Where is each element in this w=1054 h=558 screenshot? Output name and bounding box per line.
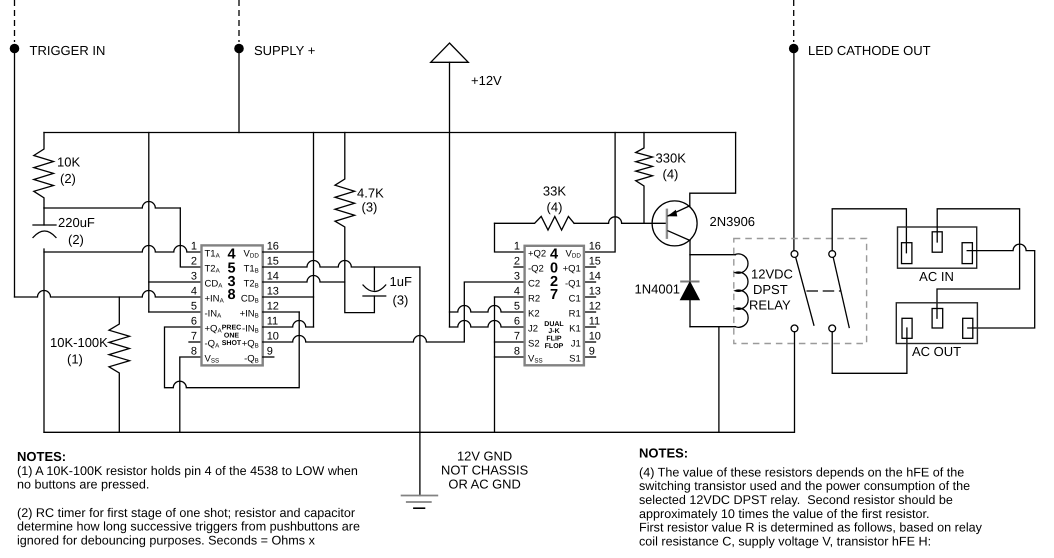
IC U2 4027 — [525, 246, 584, 365]
svg-text:1uF: 1uF — [390, 274, 412, 289]
svg-text:8: 8 — [191, 346, 197, 358]
relay K1 dashed box — [734, 239, 867, 344]
svg-text:3: 3 — [514, 271, 520, 283]
terminal SUPPLY + — [234, 44, 244, 54]
resistor R 4.7K — [335, 133, 374, 313]
wire R2 S2 VSS ground riser — [494, 297, 496, 432]
svg-text:AC OUT: AC OUT — [912, 344, 961, 359]
IC U1 4538 — [202, 245, 263, 365]
relay mechanical link dashed — [807, 290, 842, 292]
svg-text:2: 2 — [514, 256, 520, 268]
terminal TRIGGER IN dashed lead — [14, 0, 16, 42]
svg-text:(4) The value of these resisto: (4) The value of these resistors depends… — [639, 465, 964, 479]
svg-text:4.7K: 4.7K — [357, 186, 384, 201]
wire switch2 top to AC IN left prong — [832, 209, 906, 253]
svg-text:J-K: J-K — [548, 328, 559, 335]
wire pin16 VDD 4027 — [584, 133, 615, 253]
svg-text:11: 11 — [267, 316, 278, 328]
capacitor C 220uF — [43, 208, 45, 225]
wire pin8 VSS line 4027 — [495, 356, 525, 358]
wire AC IN right prong to AC OUT right prong — [967, 244, 1034, 328]
resistor R 330K — [636, 133, 653, 224]
svg-text:(4): (4) — [663, 167, 679, 182]
pin7 -QA stub — [189, 341, 202, 343]
svg-text:4: 4 — [191, 286, 197, 298]
relay switch 2 contacts — [829, 251, 836, 258]
terminal TRIGGER IN — [10, 44, 20, 54]
svg-text:14: 14 — [267, 271, 279, 283]
svg-text:11: 11 — [589, 316, 600, 328]
svg-text:(1): (1) — [67, 352, 83, 367]
wire pin3 CDA line — [149, 281, 202, 283]
svg-text:(3): (3) — [393, 293, 409, 308]
svg-text:6: 6 — [514, 316, 520, 328]
svg-text:2: 2 — [191, 256, 197, 268]
AC OUT left prong — [902, 318, 912, 338]
wire switch2 bottom to AC OUT left prong — [832, 328, 907, 373]
svg-text:3: 3 — [191, 271, 197, 283]
pin2 -Q2 stub — [514, 266, 525, 268]
svg-text:no buttons are pressed.: no buttons are pressed. — [17, 478, 149, 492]
svg-text:12V GND: 12V GND — [457, 448, 512, 463]
capacitor C 1uF — [373, 267, 375, 290]
svg-text:16: 16 — [589, 241, 601, 253]
svg-text:ignored for debouncing purpose: ignored for debouncing purposes. Seconds… — [17, 533, 316, 547]
svg-text:12: 12 — [267, 301, 279, 313]
svg-text:+12V: +12V — [471, 73, 502, 88]
wire TRIGGER IN down — [14, 53, 16, 297]
svg-text:4: 4 — [514, 286, 520, 298]
AC OUT middle prong — [932, 309, 943, 329]
svg-text:1: 1 — [191, 241, 197, 253]
svg-text:220uF: 220uF — [58, 215, 95, 230]
svg-text:5: 5 — [514, 301, 520, 313]
svg-text:SUPPLY +: SUPPLY + — [254, 43, 315, 58]
AC IN middle prong — [932, 232, 942, 252]
wire pin5 -INA line — [149, 311, 202, 313]
wire VDD riser 4538 — [313, 133, 315, 328]
svg-text:TRIGGER IN: TRIGGER IN — [30, 43, 106, 58]
wire T1B down to ground bus and chassis point — [419, 267, 421, 496]
svg-text:S1: S1 — [569, 354, 581, 365]
wire 33K to base — [574, 217, 667, 224]
wire AC IN middle prong loop to AC OUT middle prong — [937, 209, 1020, 318]
svg-text:2N3906: 2N3906 — [710, 214, 756, 229]
svg-text:10K: 10K — [57, 155, 80, 170]
connector AC IN box — [898, 227, 977, 268]
svg-text:(2): (2) — [68, 232, 84, 247]
svg-text:SHOT: SHOT — [222, 340, 242, 347]
4027 right stubs — [584, 266, 596, 268]
svg-text:R1: R1 — [569, 309, 581, 320]
svg-text:K2: K2 — [528, 309, 540, 320]
relay switch 1 contacts — [791, 251, 798, 258]
svg-text:DUAL: DUAL — [544, 321, 564, 328]
relay switch 1 armature — [796, 258, 814, 325]
svg-text:12VDC: 12VDC — [751, 267, 793, 282]
svg-text:10: 10 — [267, 331, 279, 343]
svg-text:NOTES:: NOTES: — [639, 446, 688, 461]
svg-text:9: 9 — [267, 346, 273, 358]
svg-text:approximately 10 times the val: approximately 10 times the value of the … — [639, 507, 930, 521]
svg-text:15: 15 — [589, 256, 601, 268]
svg-text:K1: K1 — [569, 324, 581, 335]
svg-text:RELAY: RELAY — [749, 298, 791, 313]
svg-text:12: 12 — [589, 301, 601, 313]
svg-text:10: 10 — [589, 331, 601, 343]
emitter with arrow — [668, 206, 690, 216]
svg-text:8: 8 — [227, 287, 235, 303]
svg-text:OR AC GND: OR AC GND — [448, 477, 520, 492]
AC IN left prong — [902, 243, 912, 264]
svg-text:(1) A 10K-100K resistor holds: (1) A 10K-100K resistor holds pin 4 of t… — [17, 464, 358, 478]
svg-text:AC IN: AC IN — [919, 269, 954, 284]
svg-text:C1: C1 — [569, 294, 581, 305]
relay switch 2 armature — [833, 258, 849, 328]
svg-text:7: 7 — [514, 331, 520, 343]
diode D1 1N4001 — [689, 255, 691, 282]
svg-text:330K: 330K — [656, 151, 687, 166]
svg-text:First resistor value R is dete: First resistor value R is determined as … — [639, 521, 983, 535]
svg-text:determine how long successive: determine how long successive triggers f… — [17, 520, 360, 534]
svg-text:ONE: ONE — [224, 332, 240, 339]
wire pin8 VSS to ground bus — [180, 357, 202, 432]
svg-text:7: 7 — [191, 331, 197, 343]
svg-text:J2: J2 — [528, 324, 538, 335]
wire J2 line to +12V — [450, 321, 525, 328]
power symbol +12V — [431, 43, 469, 62]
pin9 -QB stub — [263, 356, 274, 358]
wire pin7 S2 line — [495, 341, 525, 343]
AC IN right prong — [962, 243, 972, 264]
svg-text:selected 12VDC DPST relay. Se: selected 12VDC DPST relay. Second resist… — [639, 493, 953, 507]
svg-text:switching transistor used and: switching transistor used and the power … — [639, 479, 970, 493]
wire switch1 bottom to ground bus — [794, 332, 796, 433]
wire RC node A horizontal — [44, 202, 180, 209]
terminal SUPPLY + dashed lead — [238, 0, 240, 42]
ground symbol — [401, 495, 439, 497]
svg-text:DPST: DPST — [753, 282, 788, 297]
svg-text:13: 13 — [267, 286, 279, 298]
wire cap bottom down to ground bus — [43, 249, 45, 432]
svg-text:LED CATHODE OUT: LED CATHODE OUT — [808, 43, 931, 58]
svg-text:16: 16 — [267, 241, 279, 253]
svg-text:R2: R2 — [528, 294, 540, 305]
svg-text:NOTES:: NOTES: — [17, 449, 66, 464]
wire pin1 T1A line — [44, 246, 202, 252]
svg-text:1: 1 — [514, 241, 520, 253]
svg-text:(2) RC timer for first stage o: (2) RC timer for first stage of one shot… — [17, 506, 355, 520]
svg-text:9: 9 — [589, 346, 595, 358]
AC OUT right prong — [963, 318, 973, 338]
svg-text:FLOP: FLOP — [545, 343, 564, 350]
wire collector to relay coil top — [690, 254, 735, 256]
collector — [668, 231, 690, 241]
svg-text:PREC: PREC — [222, 325, 241, 332]
resistor R 10K — [34, 133, 54, 209]
wire top supply bus — [44, 132, 736, 134]
svg-text:(2): (2) — [60, 171, 76, 186]
label 12V GND — [441, 448, 528, 491]
svg-text:+Q1: +Q1 — [563, 264, 581, 275]
svg-text:5: 5 — [191, 301, 197, 313]
wire SUPPLY+ down to bus — [238, 53, 240, 133]
svg-text:13: 13 — [589, 286, 601, 298]
svg-text:J1: J1 — [571, 339, 581, 350]
svg-text:coil resistance C, supply volt: coil resistance C, supply voltage V, tra… — [639, 534, 931, 548]
wire pin15 T1B line — [263, 261, 420, 268]
svg-text:FLIP: FLIP — [546, 336, 561, 343]
svg-text:(4): (4) — [547, 200, 563, 215]
wire diode anode to relay coil bottom — [690, 326, 735, 328]
wire K2 line to +12V — [450, 306, 525, 313]
wire pin14 T2B line — [263, 276, 345, 283]
svg-text:1N4001: 1N4001 — [635, 282, 681, 297]
resistor R 33K — [495, 216, 575, 230]
wire LED cathode down to relay contact — [793, 53, 795, 251]
svg-text:+Q2: +Q2 — [528, 249, 546, 260]
wire pin6 +QA line — [165, 312, 300, 388]
wire trigger line to pin4 +INA — [15, 291, 202, 297]
wire CDA/-INA VDD riser — [148, 133, 150, 313]
wire pin11 -INB line — [263, 321, 314, 328]
wire pin1 +Q2 line to 33K — [495, 223, 525, 252]
svg-text:8: 8 — [514, 346, 520, 358]
wire riser to pin2 T2A — [180, 208, 201, 267]
svg-text:7: 7 — [550, 287, 558, 303]
terminal LED CATHODE OUT — [789, 44, 799, 54]
svg-text:S2: S2 — [528, 339, 540, 350]
wire pin13 CDB line — [263, 296, 314, 298]
svg-text:NOT CHASSIS: NOT CHASSIS — [441, 462, 528, 477]
wire pin12 +INB line — [263, 311, 300, 313]
terminal LED CATHODE OUT dashed lead — [793, 0, 795, 42]
resistor R 10K-100K — [109, 297, 130, 432]
connector AC OUT box — [896, 303, 977, 344]
svg-text:15: 15 — [267, 256, 279, 268]
svg-text:33K: 33K — [543, 184, 566, 199]
svg-text:-Q2: -Q2 — [528, 264, 544, 275]
svg-text:C2: C2 — [528, 279, 540, 290]
wire coil bottom to ground bus — [718, 327, 720, 433]
wire pin10 +QB to 4027 C2 — [263, 282, 525, 342]
svg-text:10K-100K: 10K-100K — [50, 335, 108, 350]
wire pin4 R2 line — [495, 296, 525, 298]
wire +12V riser — [449, 62, 451, 327]
wire ground bus bottom — [44, 431, 794, 433]
transistor Q1 2N3906 — [652, 201, 697, 246]
wire pin16 VDD line 4538 — [263, 251, 314, 253]
relay coil — [735, 254, 748, 327]
svg-text:14: 14 — [589, 271, 601, 283]
svg-text:6: 6 — [191, 316, 197, 328]
svg-text:-Q1: -Q1 — [565, 279, 581, 290]
svg-text:(3): (3) — [362, 200, 378, 215]
